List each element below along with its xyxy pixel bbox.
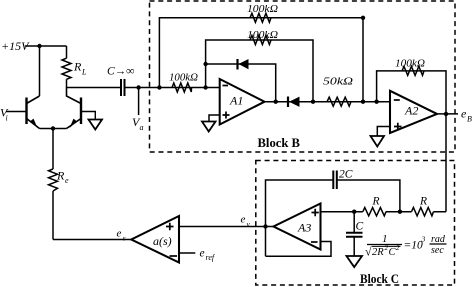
svg-text:=10: =10 <box>404 240 424 252</box>
svg-text:B: B <box>467 115 472 124</box>
svg-text:50kΩ: 50kΩ <box>323 76 353 88</box>
svg-text:ref: ref <box>206 253 216 262</box>
svg-text:2C: 2C <box>339 169 353 181</box>
svg-text:R: R <box>56 169 65 183</box>
svg-text:e: e <box>200 248 205 260</box>
svg-text:R: R <box>419 196 427 208</box>
svg-text:√: √ <box>365 245 372 259</box>
svg-text:100kΩ: 100kΩ <box>247 3 278 15</box>
svg-text:a: a <box>140 123 144 132</box>
svg-text:Block B: Block B <box>258 135 301 150</box>
svg-text:ε: ε <box>123 234 126 243</box>
svg-text:2R: 2R <box>372 247 384 258</box>
svg-text:rad: rad <box>431 234 446 245</box>
svg-text:i: i <box>6 114 8 123</box>
svg-text:L: L <box>81 68 87 77</box>
svg-text:100kΩ: 100kΩ <box>169 72 198 84</box>
svg-text:2: 2 <box>396 244 400 252</box>
svg-text:A1: A1 <box>229 94 243 108</box>
svg-text:A3: A3 <box>297 221 311 235</box>
svg-text:e: e <box>241 214 246 226</box>
svg-text:C→∞: C→∞ <box>107 66 134 78</box>
svg-text:sec: sec <box>431 245 444 256</box>
svg-text:+15V: +15V <box>1 39 30 53</box>
svg-text:Block C: Block C <box>360 271 399 286</box>
svg-text:C: C <box>356 221 364 233</box>
svg-text:3: 3 <box>421 235 426 244</box>
svg-text:100kΩ: 100kΩ <box>395 58 425 70</box>
svg-text:e: e <box>117 228 122 240</box>
svg-text:R: R <box>73 60 82 74</box>
svg-text:100kΩ: 100kΩ <box>247 29 278 41</box>
svg-text:a(s): a(s) <box>153 234 172 248</box>
svg-text:e: e <box>65 176 69 185</box>
svg-text:A2: A2 <box>404 104 418 118</box>
svg-text:R: R <box>372 196 380 208</box>
